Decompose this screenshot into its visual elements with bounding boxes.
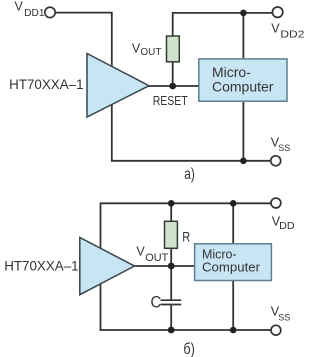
svg-text:RESET: RESET — [153, 93, 188, 108]
svg-text:SS: SS — [278, 143, 290, 154]
svg-text:б): б) — [183, 341, 195, 357]
svg-text:DD1: DD1 — [24, 8, 45, 19]
svg-text:R: R — [182, 229, 190, 245]
svg-text:Computer: Computer — [212, 79, 274, 95]
svg-text:C: C — [151, 293, 162, 312]
svg-text:V: V — [271, 21, 280, 35]
svg-text:SS: SS — [278, 313, 290, 324]
svg-text:OUT: OUT — [145, 252, 168, 264]
svg-text:OUT: OUT — [140, 47, 161, 58]
svg-text:V: V — [15, 0, 24, 14]
svg-text:DD2: DD2 — [280, 29, 304, 41]
svg-text:Micro-: Micro- — [212, 64, 251, 80]
svg-text:a): a) — [184, 166, 195, 183]
svg-text:HT70XXA–1: HT70XXA–1 — [4, 258, 79, 274]
svg-text:DD: DD — [279, 221, 295, 232]
svg-text:HT70XXA–1: HT70XXA–1 — [9, 76, 84, 92]
svg-text:V: V — [136, 245, 145, 259]
svg-text:Computer: Computer — [202, 260, 261, 275]
